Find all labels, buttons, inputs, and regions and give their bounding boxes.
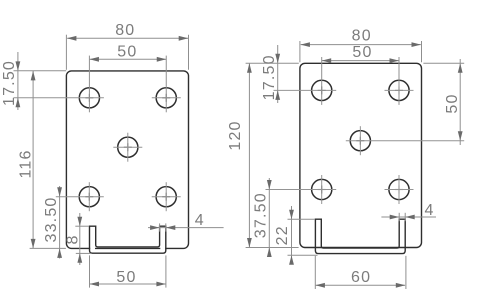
svg-text:80: 80 — [352, 28, 372, 45]
svg-text:60: 60 — [351, 269, 371, 286]
svg-text:80: 80 — [115, 22, 135, 39]
svg-text:50: 50 — [444, 93, 461, 113]
svg-text:22: 22 — [274, 225, 291, 245]
svg-text:116: 116 — [17, 149, 34, 178]
svg-text:120: 120 — [227, 120, 244, 150]
svg-text:8: 8 — [65, 234, 82, 244]
svg-text:17.50: 17.50 — [1, 60, 18, 106]
svg-text:37.50: 37.50 — [253, 192, 270, 238]
svg-text:17.50: 17.50 — [261, 54, 278, 100]
svg-text:50: 50 — [116, 269, 136, 286]
svg-text:33.50: 33.50 — [43, 196, 60, 242]
svg-text:50: 50 — [352, 44, 372, 61]
svg-text:50: 50 — [117, 43, 137, 60]
svg-text:4: 4 — [195, 212, 205, 229]
